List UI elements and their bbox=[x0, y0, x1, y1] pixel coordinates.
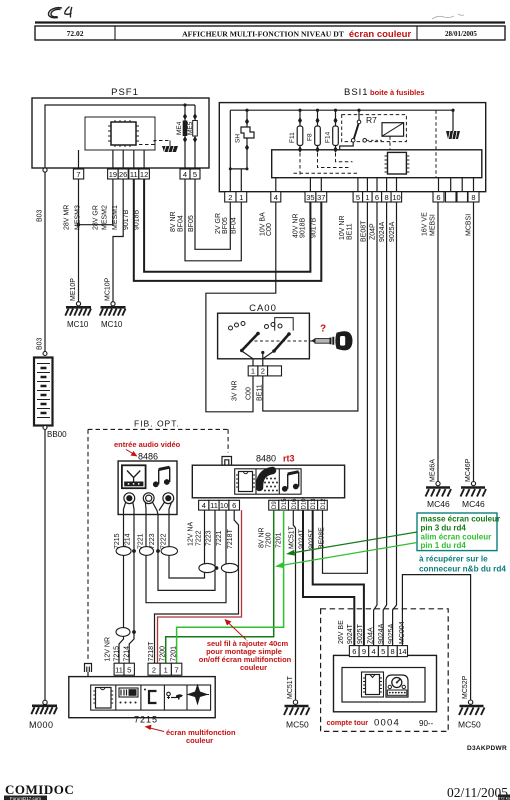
CA00 pin 1 bbox=[248, 366, 258, 376]
8480 pin D10 bbox=[298, 498, 308, 510]
wire 7218T (8480 pin 6 to screen pin 2) bbox=[155, 510, 239, 663]
PSF1 pin 19 bbox=[108, 169, 119, 179]
PSF1 pin 11 bbox=[129, 169, 139, 179]
svg-text:11: 11 bbox=[130, 170, 138, 179]
BSI1 pin 2 bbox=[225, 192, 236, 202]
8486 RCA jack 1 bbox=[124, 493, 135, 515]
switch CA00 box bbox=[218, 313, 310, 359]
svg-text:entrée audio vidéo: entrée audio vidéo bbox=[114, 440, 181, 449]
svg-text:8V NR: 8V NR bbox=[170, 211, 177, 232]
svg-text:16V VE: 16V VE bbox=[422, 212, 429, 236]
7215 icon frame bbox=[91, 685, 211, 710]
compte tour pin 5 bbox=[378, 646, 388, 657]
svg-text:26V BE: 26V BE bbox=[338, 620, 345, 644]
7215 key icon bbox=[167, 692, 183, 699]
svg-text:BF05: BF05 bbox=[222, 217, 229, 234]
svg-text:2V GR: 2V GR bbox=[215, 213, 222, 234]
svg-text:1: 1 bbox=[251, 367, 255, 376]
svg-text:C00: C00 bbox=[246, 387, 253, 400]
svg-text:7200: 7200 bbox=[160, 646, 167, 662]
8480 wire labels right bbox=[259, 525, 326, 549]
svg-text:19: 19 bbox=[109, 170, 117, 179]
7215 compass star icon bbox=[187, 684, 210, 706]
svg-text:28V GR: 28V GR bbox=[93, 205, 100, 230]
svg-text:MC46: MC46 bbox=[462, 499, 485, 509]
7215 pin 7 bbox=[171, 663, 181, 675]
svg-text:rt3: rt3 bbox=[283, 454, 295, 464]
wire 7214 (8486 to screen pin 5) bbox=[129, 515, 134, 664]
svg-text:9017B: 9017B bbox=[123, 209, 130, 230]
compte tour dashed enclosure bbox=[321, 609, 449, 732]
svg-text:écran couleur: écran couleur bbox=[349, 29, 412, 40]
wire BB00 to M000 bbox=[44, 430, 46, 701]
ground MC10P / MC10 bbox=[100, 277, 126, 329]
svg-text:CA00: CA00 bbox=[249, 303, 277, 314]
svg-text:7215: 7215 bbox=[114, 646, 121, 662]
svg-text:7222: 7222 bbox=[196, 530, 203, 546]
faint pencil squiggle top right bbox=[432, 14, 464, 19]
svg-text:MCBSI: MCBSI bbox=[466, 214, 473, 236]
PSF1 dashed link to ground bbox=[139, 141, 170, 145]
unit BSI1 fuse box bbox=[219, 103, 485, 192]
7215 pin 2 bbox=[148, 663, 160, 675]
wire 9025T (D13 to compte-tour pin 9) bbox=[313, 510, 364, 645]
svg-text:D15: D15 bbox=[282, 498, 288, 510]
wire 9017B bbox=[134, 179, 321, 281]
svg-text:pin 1 du rd4: pin 1 du rd4 bbox=[421, 541, 467, 550]
compte tour pin 8 bbox=[388, 646, 397, 657]
wire MC51T (D16 to ground) bbox=[293, 510, 295, 700]
svg-text:7200: 7200 bbox=[266, 532, 273, 548]
svg-text:5: 5 bbox=[127, 665, 131, 674]
svg-text:F14: F14 bbox=[325, 131, 332, 143]
svg-text:COMIDOC: COMIDOC bbox=[5, 782, 74, 797]
BSI1 inner connector strip bbox=[272, 150, 482, 178]
svg-text:28V MR: 28V MR bbox=[64, 205, 71, 230]
fuse F8 bbox=[307, 110, 321, 153]
8486 RCA jack 3 bbox=[159, 493, 174, 515]
svg-text:8: 8 bbox=[391, 647, 395, 656]
component ME4 bbox=[176, 105, 197, 169]
svg-text:D16: D16 bbox=[292, 498, 298, 510]
svg-text:6: 6 bbox=[232, 501, 236, 510]
svg-text:1: 1 bbox=[164, 665, 168, 674]
svg-text:4: 4 bbox=[372, 647, 376, 656]
svg-text:5: 5 bbox=[356, 193, 360, 202]
svg-text:?: ? bbox=[320, 324, 326, 335]
PSF1 pin 5 bbox=[190, 169, 200, 179]
ground MC52P / MC50 bbox=[458, 675, 485, 729]
compte tour gauge icon bbox=[386, 675, 408, 697]
connector into 7215 unit bbox=[85, 664, 92, 677]
svg-text:7201: 7201 bbox=[171, 646, 178, 662]
unit 8480 RT3 radio-telephone bbox=[192, 465, 344, 498]
PSF1 chip-to-pin wires bbox=[79, 150, 145, 169]
svg-text:BE08E: BE08E bbox=[319, 527, 326, 549]
CA00 ignition contacts bbox=[229, 318, 294, 366]
wire C00 (BSI1 pin4 to CA00 pin1) bbox=[206, 202, 276, 412]
wire MESM3 bbox=[78, 179, 80, 302]
wire BF05 bbox=[195, 179, 230, 249]
svg-text:7218T: 7218T bbox=[227, 528, 234, 549]
svg-text:10V NR: 10V NR bbox=[339, 215, 346, 240]
svg-text:MC52P: MC52P bbox=[462, 675, 469, 699]
svg-text:9025T: 9025T bbox=[357, 623, 364, 644]
compte tour pin 9 bbox=[359, 646, 369, 657]
svg-text:10: 10 bbox=[392, 193, 400, 202]
svg-text:272 ko: 272 ko bbox=[498, 795, 510, 800]
8480 pin D16 bbox=[289, 498, 299, 510]
svg-text:8: 8 bbox=[471, 193, 475, 202]
fibre optic dashed run FIB.OPT. bbox=[88, 419, 228, 663]
PSF1 pin 7 bbox=[73, 169, 83, 179]
wire MESM2 joining MESM3 bbox=[79, 179, 113, 225]
8480 chip icon bbox=[236, 472, 255, 492]
BSI1 pin 1b bbox=[363, 192, 373, 202]
PSF1 pin 12 bbox=[139, 169, 150, 179]
svg-text:11: 11 bbox=[115, 665, 123, 674]
svg-text:C00: C00 bbox=[266, 223, 273, 236]
7215 wire labels bbox=[105, 637, 178, 662]
compte tour wire labels bbox=[338, 620, 406, 644]
footer badge left bbox=[4, 796, 47, 800]
svg-text:D13: D13 bbox=[311, 498, 317, 510]
8480 icon frame bbox=[235, 469, 301, 494]
svg-text:MC50: MC50 bbox=[458, 720, 481, 730]
8480 pin D13 bbox=[308, 498, 318, 510]
svg-text:9018B: 9018B bbox=[300, 217, 307, 238]
svg-text:2: 2 bbox=[228, 193, 232, 202]
wire BE08T (BSI1 pin1 down) bbox=[323, 202, 368, 573]
wire 7215 (8486 to screen pin 11) bbox=[119, 515, 124, 664]
svg-text:8480: 8480 bbox=[256, 454, 276, 464]
svg-text:8V NR: 8V NR bbox=[259, 527, 266, 548]
8480 pin D15 bbox=[279, 498, 289, 510]
green arrow to 7200 wire bbox=[278, 543, 417, 567]
svg-text:9024A: 9024A bbox=[378, 623, 385, 644]
wire 9025A (BSI1 pin10 to compte-tour pin8) bbox=[393, 202, 397, 646]
wire Z04 (BSI1 pin6 to compte-tour pin4) bbox=[374, 202, 377, 646]
twisted pair oval row 3 bbox=[116, 628, 136, 637]
compte tour pin 6 bbox=[349, 646, 359, 657]
svg-text:0004: 0004 bbox=[374, 718, 400, 729]
BSI1 pin 5 bbox=[353, 192, 363, 202]
8480 phone icon bbox=[259, 471, 277, 492]
BSI1 pin 35 bbox=[305, 192, 316, 202]
svg-text:MC004: MC004 bbox=[399, 621, 406, 644]
svg-text:9017B: 9017B bbox=[311, 217, 318, 238]
svg-text:ME10P: ME10P bbox=[70, 278, 77, 301]
PSF1 internal supply wire bbox=[45, 105, 195, 168]
8480 music note icon bbox=[282, 472, 299, 492]
svg-text:9: 9 bbox=[362, 647, 366, 656]
CA00 wire labels bbox=[232, 380, 264, 401]
svg-text:D12: D12 bbox=[321, 498, 327, 510]
BSI1 pin 8 bbox=[382, 192, 392, 202]
8486 wire labels bbox=[114, 533, 168, 549]
svg-text:12: 12 bbox=[140, 170, 148, 179]
footer badge right bbox=[498, 795, 510, 800]
svg-text:7223: 7223 bbox=[206, 530, 213, 546]
svg-text:6: 6 bbox=[375, 193, 379, 202]
svg-text:1: 1 bbox=[365, 193, 369, 202]
unit 0004 rev counter box bbox=[334, 655, 437, 711]
green arrow to 7201 wire bbox=[289, 532, 417, 554]
svg-text:90--: 90-- bbox=[419, 719, 434, 728]
svg-text:9025A: 9025A bbox=[389, 221, 396, 242]
wire 7200 green (D9 to screen pin 1) bbox=[166, 510, 274, 663]
svg-text:8: 8 bbox=[385, 193, 389, 202]
svg-text:MC50: MC50 bbox=[286, 720, 309, 730]
svg-text:6: 6 bbox=[436, 193, 440, 202]
PSF1 B03 terminal circle bbox=[43, 168, 47, 172]
svg-text:BE11: BE11 bbox=[347, 223, 354, 240]
compte tour chip icon bbox=[362, 672, 384, 697]
svg-text:AFFICHEUR MULTI-FONCTION NIVEA: AFFICHEUR MULTI-FONCTION NIVEAU DT bbox=[182, 30, 345, 39]
svg-text:10: 10 bbox=[220, 501, 228, 510]
svg-text:7: 7 bbox=[76, 170, 80, 179]
wire BF04 bbox=[185, 179, 241, 261]
ground MC46 left bbox=[426, 482, 452, 510]
svg-text:boite à fusibles: boite à fusibles bbox=[370, 88, 425, 97]
svg-text:5: 5 bbox=[193, 170, 197, 179]
svg-text:ME4: ME4 bbox=[176, 121, 183, 135]
svg-text:MESM2: MESM2 bbox=[102, 205, 109, 230]
BSI1 wire labels bbox=[215, 212, 473, 242]
svg-text:40V NR: 40V NR bbox=[293, 213, 300, 238]
svg-text:14: 14 bbox=[398, 647, 406, 656]
PSF1 IC chip bbox=[108, 120, 139, 147]
7215 pin 5 bbox=[124, 663, 134, 675]
svg-text:pin 3 du rd4: pin 3 du rd4 bbox=[421, 524, 467, 533]
svg-text:ME46A: ME46A bbox=[430, 459, 437, 482]
fuse F11 bbox=[289, 110, 303, 153]
svg-text:MC51T: MC51T bbox=[289, 525, 296, 549]
wire 7221 (8486 to 8480 pin 10) bbox=[146, 510, 226, 603]
7215 C icon bbox=[144, 689, 157, 704]
7215 display icon bbox=[119, 688, 138, 704]
svg-text:5: 5 bbox=[381, 647, 385, 656]
wire 9024T (D10 to compte-tour pin 6) bbox=[303, 510, 354, 645]
twisted pair ovals row 2 bbox=[199, 563, 238, 572]
svg-text:2: 2 bbox=[261, 367, 265, 376]
svg-text:D9: D9 bbox=[272, 501, 278, 509]
svg-text:BF04: BF04 bbox=[178, 215, 185, 232]
BSI1 left drop wires to pins 2,1 bbox=[230, 110, 247, 192]
svg-text:BE11: BE11 bbox=[257, 384, 264, 401]
svg-text:7221: 7221 bbox=[216, 530, 223, 546]
red note seul fil bbox=[199, 639, 292, 672]
handwritten C4 logo bbox=[48, 7, 71, 18]
svg-text:7214: 7214 bbox=[124, 646, 131, 662]
ground M000 bbox=[29, 700, 57, 730]
wire MC004 (compte-tour pin 14 to ground) bbox=[402, 575, 470, 700]
ground MC46 right bbox=[461, 482, 487, 510]
svg-text:2: 2 bbox=[152, 665, 156, 674]
unit PSF1 box bbox=[32, 98, 209, 168]
svg-text:ME5: ME5 bbox=[187, 121, 194, 135]
svg-text:MEBSI: MEBSI bbox=[430, 214, 437, 236]
BSI1 internal bus wire bbox=[230, 109, 453, 111]
svg-text:4: 4 bbox=[183, 170, 187, 179]
svg-text:BB00: BB00 bbox=[47, 430, 67, 439]
BSI1 internal ground flag bbox=[446, 110, 460, 139]
svg-text:ForumD17.com: ForumD17.com bbox=[10, 796, 41, 800]
svg-text:conneceur n&b du rd4: conneceur n&b du rd4 bbox=[419, 565, 506, 574]
7215 pin 11 bbox=[114, 663, 124, 675]
svg-text:35: 35 bbox=[306, 193, 314, 202]
8480 pin 11 bbox=[209, 500, 219, 510]
8480 pin 6 bbox=[229, 500, 240, 510]
shunt SH bbox=[235, 110, 255, 152]
PSF1 inner module box bbox=[85, 117, 155, 150]
ground ME10P / MC10 bbox=[65, 278, 91, 329]
svg-text:R7: R7 bbox=[366, 115, 377, 125]
8480 pin 10 bbox=[219, 500, 229, 510]
svg-text:Z04A: Z04A bbox=[368, 627, 375, 644]
svg-text:9024A: 9024A bbox=[379, 221, 386, 242]
PSF1 internal ground flag bbox=[162, 141, 178, 153]
7215 chip icon bbox=[93, 688, 113, 709]
wire 7223 (8486 to 8480 pin 11) bbox=[158, 510, 215, 590]
ignition key symbol bbox=[311, 331, 353, 350]
svg-text:F11: F11 bbox=[289, 132, 296, 143]
compte tour pin 4 bbox=[369, 646, 379, 657]
svg-text:3V NR: 3V NR bbox=[232, 380, 239, 401]
svg-text:SH: SH bbox=[235, 134, 242, 143]
svg-text:9024T: 9024T bbox=[347, 623, 354, 644]
7215 pin 1 bbox=[160, 663, 171, 675]
wire MESM1 bbox=[113, 179, 123, 302]
8486 RCA jack 2 bbox=[143, 493, 158, 515]
CA00 dashed key link bbox=[249, 340, 312, 342]
unit 7215 colour multifunction screen bbox=[69, 677, 215, 718]
title block frame bbox=[35, 23, 505, 41]
connector onto 8480 (fibre) bbox=[222, 457, 232, 466]
svg-text:9025A: 9025A bbox=[388, 623, 395, 644]
svg-text:26: 26 bbox=[119, 170, 127, 179]
wire 9018B bbox=[144, 179, 310, 272]
wire MEBSI to ground bbox=[437, 202, 439, 481]
svg-text:7218T: 7218T bbox=[148, 641, 155, 662]
svg-text:4: 4 bbox=[202, 501, 206, 510]
svg-text:7: 7 bbox=[175, 665, 179, 674]
svg-text:Z04P: Z04P bbox=[370, 223, 377, 240]
relay R7 dashed enclosure bbox=[340, 110, 407, 150]
svg-text:28/01/2005: 28/01/2005 bbox=[445, 30, 477, 38]
compte tour icon frame bbox=[342, 668, 425, 703]
svg-text:8486: 8486 bbox=[138, 452, 158, 462]
svg-text:MC46: MC46 bbox=[427, 499, 450, 509]
8480 wire labels left bbox=[188, 522, 235, 549]
wire 9024A (BSI1 pin8 to compte-tour pin5) bbox=[383, 202, 386, 646]
relay R7 coil bbox=[382, 123, 404, 137]
BSI1 pin 6b bbox=[433, 192, 444, 202]
svg-text:12V NR: 12V NR bbox=[105, 637, 112, 662]
svg-text:à récupérer sur le: à récupérer sur le bbox=[419, 555, 488, 564]
unit 8486 audio/video input bbox=[118, 461, 177, 515]
svg-text:PSF1: PSF1 bbox=[111, 87, 139, 98]
BSI1 dashed internal links bbox=[294, 110, 437, 178]
8480 pin D9 bbox=[269, 500, 279, 510]
svg-text:FIB. OPT.: FIB. OPT. bbox=[134, 419, 180, 429]
svg-text:D3AKPDWR: D3AKPDWR bbox=[467, 745, 507, 752]
PSF1 pin 4 bbox=[180, 169, 190, 179]
svg-text:11: 11 bbox=[210, 501, 218, 510]
svg-text:4: 4 bbox=[274, 193, 278, 202]
8486 TV icon bbox=[122, 465, 146, 488]
svg-text:B03: B03 bbox=[37, 337, 44, 350]
svg-text:M000: M000 bbox=[29, 720, 54, 730]
svg-text:MC10P: MC10P bbox=[105, 277, 112, 301]
svg-text:couleur: couleur bbox=[240, 663, 267, 672]
svg-text:couleur: couleur bbox=[186, 736, 213, 745]
svg-text:7215: 7215 bbox=[134, 715, 158, 725]
svg-text:72.02: 72.02 bbox=[67, 29, 84, 38]
svg-text:12V NA: 12V NA bbox=[188, 522, 195, 546]
svg-text:compte tour: compte tour bbox=[327, 718, 369, 727]
green annotation box bbox=[417, 513, 500, 551]
svg-text:D10: D10 bbox=[302, 498, 308, 510]
8480 pin D12 bbox=[318, 498, 328, 510]
svg-text:MC51T: MC51T bbox=[287, 675, 294, 699]
svg-text:6: 6 bbox=[352, 647, 356, 656]
BSI1 IC chip bbox=[385, 152, 410, 174]
svg-text:masse écran couleur: masse écran couleur bbox=[421, 515, 501, 524]
svg-text:MC10: MC10 bbox=[101, 320, 123, 329]
wire 7222 (8486 to 8480 pin 4) bbox=[169, 510, 205, 578]
twisted pair ovals row 1 bbox=[116, 547, 177, 556]
compte tour pin 14 bbox=[397, 646, 407, 657]
svg-text:7201: 7201 bbox=[276, 532, 283, 548]
wire BE11 (BSI1 pin5 to CA00 pin2) bbox=[263, 202, 358, 411]
8480 pin 4 bbox=[199, 500, 209, 510]
svg-text:F8: F8 bbox=[307, 133, 314, 141]
ground MC51T / MC50 bbox=[284, 675, 310, 729]
PSF1 pin 26 bbox=[118, 169, 128, 179]
svg-text:BF05: BF05 bbox=[188, 215, 195, 232]
CA00 pin 2 bbox=[258, 366, 268, 376]
BSI1 empty pins bbox=[446, 192, 457, 202]
svg-text:BE08T: BE08T bbox=[361, 220, 368, 242]
BSI1 pin 4 bbox=[271, 192, 281, 202]
BSI1 strip-to-pin stubs bbox=[276, 178, 474, 192]
svg-text:BF04: BF04 bbox=[231, 217, 238, 234]
svg-text:B03: B03 bbox=[37, 209, 44, 222]
svg-text:37: 37 bbox=[317, 193, 325, 202]
added red wire bbox=[158, 510, 242, 663]
svg-text:MC46P: MC46P bbox=[465, 458, 472, 482]
wire B03 bbox=[44, 172, 46, 351]
8486 music note icon bbox=[153, 467, 170, 487]
battery BB00 bbox=[34, 352, 67, 440]
CA00 pin blank bbox=[268, 366, 282, 376]
BSI1 pin 1 bbox=[236, 192, 247, 202]
red arrow to added wire bbox=[227, 622, 246, 640]
BSI1 pin 37 bbox=[316, 192, 327, 202]
BSI1 pin 6 bbox=[372, 192, 382, 202]
fuse F14 bbox=[325, 110, 339, 153]
svg-text:BSI1: BSI1 bbox=[344, 87, 369, 98]
wire 7201 bright green (D15 to screen pin 7) bbox=[177, 510, 284, 663]
svg-text:1: 1 bbox=[239, 193, 243, 202]
BSI1 pin 8b bbox=[468, 192, 479, 202]
PSF1 wire labels bbox=[64, 205, 196, 232]
svg-text:MC10: MC10 bbox=[67, 320, 89, 329]
wire MCBSI to ground bbox=[473, 202, 475, 481]
BSI1 pin 10 bbox=[391, 192, 402, 202]
